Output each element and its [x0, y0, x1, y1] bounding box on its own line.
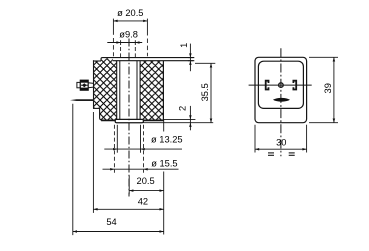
svg-text:2: 2 — [177, 106, 187, 111]
fixing screw washer bottom band (filled) — [80, 88, 88, 91]
dimension Ø20.5 line with arrows — [113, 20, 147, 22]
connector horizontal centerline — [249, 84, 312, 86]
tube outer wall left — [116, 61, 118, 120]
coil body hatched section left (flange + left winding) — [94, 58, 117, 120]
coil flange step — [93, 107, 100, 109]
fixing screw washer block outline — [80, 80, 88, 90]
dimension 35.5 line with arrows — [210, 63, 212, 122]
dimension 1 line with outside arrows — [189, 44, 191, 72]
coil body hatched section right (right winding) — [140, 61, 163, 121]
coil flange left edge — [93, 60, 95, 108]
svg-text:35.5: 35.5 — [200, 83, 210, 101]
svg-text:54: 54 — [106, 217, 116, 227]
tube end extension line to right — [143, 122, 213, 124]
center contact circle — [279, 83, 284, 88]
long right extension line from body right edge (broken at texts) — [163, 119, 165, 131]
coil outline top face line A with left step corner — [101, 58, 194, 61]
svg-text:ø 20.5: ø 20.5 — [117, 8, 143, 18]
svg-text:ø 15.5: ø 15.5 — [151, 158, 177, 168]
dimension 2 line with outside arrows — [189, 106, 191, 130]
coil flange top line — [93, 60, 101, 62]
dimension Ø9.8 extension dashes — [120, 40, 122, 45]
fixing screw washer top band (filled) — [80, 80, 88, 83]
bore inner line left — [119, 61, 121, 120]
coil outline line B (bore flange top) extended right — [113, 60, 194, 62]
dimension 54 line with arrows — [73, 231, 164, 233]
contact pin left bracket — [266, 81, 269, 90]
dimension 30 line with arrows — [255, 148, 307, 150]
dimension 20.5 left extension — [128, 176, 130, 195]
bore inner line right — [136, 61, 138, 120]
contact pin right bracket — [293, 81, 296, 90]
dimension 30 extension lines — [254, 125, 256, 153]
dimension Ø20.5 extension lines (dashed into part) — [112, 19, 114, 35]
fixing screw slot cross line — [81, 84, 88, 86]
dimension 42 left extension line — [92, 112, 94, 213]
keyway slot (filled lens) — [273, 98, 290, 102]
terminal lead (pointed tab at left) — [70, 99, 94, 101]
dimension 35.5 top extension line — [195, 62, 215, 64]
dimension Ø15.5 line with outside arrows — [103, 168, 179, 170]
tube outer wall right — [139, 61, 141, 120]
dimension 42 line with arrows — [93, 208, 163, 210]
dimension Ø15.5 extension lines (dashed) — [113, 125, 115, 173]
dimension Ø13.25 extension lines — [116, 125, 118, 153]
fixing screw slot diamond — [82, 83, 87, 87]
connector inner outline (rounded square) — [258, 61, 303, 108]
svg-text:1: 1 — [179, 43, 189, 48]
coil bottom face line — [101, 119, 163, 121]
fixing screw head outer rect — [77, 82, 80, 87]
dimension 54 left extension line — [72, 104, 74, 235]
svg-text:ø 13.25: ø 13.25 — [151, 134, 183, 144]
tube end collar bar — [115, 119, 143, 122]
dimension 39 extension lines — [309, 56, 338, 58]
connector outer outline (rounded square) — [255, 57, 307, 122]
svg-text:ø9.8: ø9.8 — [119, 30, 138, 40]
bottom face extension line to right — [163, 118, 195, 120]
coil right edge — [162, 61, 164, 121]
dimension Ø9.8 line with outside arrows — [107, 42, 142, 44]
dimension 20.5 line with arrows — [129, 190, 164, 192]
coil flange lower-left edge with rounded corner — [99, 108, 102, 120]
vertical centerline of coil (dash-dot) — [128, 39, 130, 197]
fixing screw shaft — [88, 83, 93, 88]
svg-text:30: 30 — [276, 137, 286, 147]
svg-text:39: 39 — [323, 83, 333, 93]
connector vertical centerline (dash-dot) — [280, 48, 282, 156]
svg-text:20.5: 20.5 — [137, 176, 155, 186]
equality marks below 30 dimension — [268, 152, 274, 154]
dimension 39 line with arrows — [333, 57, 335, 122]
svg-text:42: 42 — [138, 197, 148, 207]
dimension Ø13.25 line with outside arrows — [104, 148, 182, 150]
